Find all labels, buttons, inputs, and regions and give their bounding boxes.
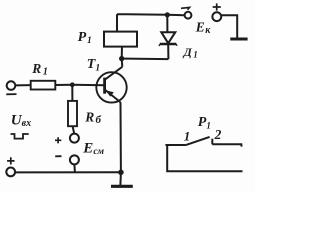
chassis ground bar top right	[230, 38, 247, 41]
terminal input top (minus)	[7, 81, 16, 90]
resistor R1	[31, 81, 56, 90]
diode cathode bar	[160, 43, 177, 45]
ground bar	[111, 185, 133, 188]
wire: relay coil bottom lead	[121, 47, 123, 59]
wire: diode cathode down	[167, 44, 169, 59]
wire: Rb bottom lead	[73, 126, 75, 133]
svg-text:2: 2	[214, 127, 222, 142]
minus arrow above Ek terminal	[181, 7, 190, 9]
cathode bar end ticks	[159, 44, 177, 46]
terminal -Esm	[70, 155, 79, 164]
diode triangle	[161, 32, 175, 43]
relay contact P1: left lead	[165, 144, 185, 146]
wire: Ek junction to terminal circle	[167, 14, 184, 16]
wire: -Esm down to ground rail	[73, 164, 76, 172]
wire: base junction to transistor base	[72, 84, 104, 87]
wire: contact left lead down and bottom run	[167, 145, 242, 171]
terminal input bottom (plus)	[6, 168, 15, 177]
input pulse symbol	[11, 134, 29, 139]
relay contact: fixed contact tick	[211, 139, 213, 145]
relay coil P1	[104, 32, 137, 47]
svg-text:1: 1	[184, 128, 191, 143]
plus sign above bottom input terminal	[7, 157, 14, 164]
terminal +Esm	[70, 134, 79, 143]
relay contact: right lead	[212, 144, 241, 146]
wire: bottom ground rail	[15, 171, 121, 173]
node: junction of relay, diode and Ek	[165, 12, 170, 17]
wire: relay coil top lead	[116, 14, 118, 31]
minus sign of Esm	[55, 155, 61, 157]
plus sign of Esm	[55, 137, 61, 143]
resistor Rb	[68, 85, 77, 134]
Rb body	[68, 101, 77, 126]
wire: diode anode from junction	[166, 15, 168, 32]
transistor body circle	[96, 72, 126, 102]
wire: junction down to ground	[119, 172, 122, 185]
wire: +Ek terminal to chassis	[221, 15, 237, 38]
minus sign below input terminal	[6, 93, 16, 95]
wire: input terminal to R1	[15, 84, 30, 86]
wire: junction down to Rb	[71, 85, 73, 101]
collector stroke	[105, 67, 123, 80]
base bar	[103, 78, 106, 94]
relay contact: movable blade	[185, 137, 209, 145]
node: base junction	[70, 82, 75, 87]
diode D1	[159, 15, 177, 59]
emitter stroke	[105, 90, 120, 102]
wire: junction down to collector	[121, 59, 124, 67]
node: collector junction below relay	[119, 56, 124, 61]
wire: top rail from relay coil to Ek terminal	[117, 13, 167, 16]
terminal -Ek	[185, 12, 192, 19]
wire: R1 to base junction	[55, 84, 72, 86]
node: ground junction	[118, 170, 124, 176]
plus sign of +Ek	[213, 3, 221, 10]
wire: emitter down to ground junction	[120, 102, 121, 173]
transistor T1	[96, 67, 126, 103]
emitter arrowhead (pnp, points to base)	[106, 90, 114, 96]
terminal +Ek (top right)	[212, 12, 221, 21]
wire: junction to diode cathode	[122, 58, 169, 61]
